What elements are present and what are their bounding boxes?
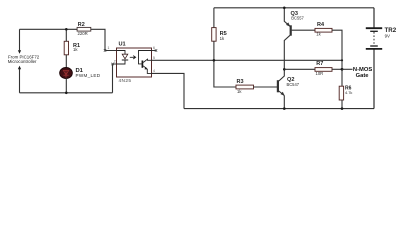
wire R7 right lead xyxy=(332,68,342,70)
svg-text:9V: 9V xyxy=(385,33,390,38)
wire R4 right to gate column xyxy=(332,30,342,60)
phototransistor inside U1 xyxy=(141,61,143,68)
wire R1 top lead xyxy=(65,29,67,41)
input arrow lower xyxy=(18,66,21,70)
resistor R1 xyxy=(64,41,68,55)
wire left bottom rail xyxy=(20,92,113,94)
svg-text:R4: R4 xyxy=(317,22,325,28)
resistor R4 xyxy=(315,28,332,32)
svg-text:BC557: BC557 xyxy=(291,15,304,20)
svg-text:Microcontroller: Microcontroller xyxy=(8,59,37,64)
node Q2 emitter at rail xyxy=(283,107,286,110)
svg-text:U1: U1 xyxy=(119,41,126,47)
wire R6 bottom lead xyxy=(341,100,343,109)
node gate junction xyxy=(341,68,344,71)
svg-text:R3: R3 xyxy=(237,79,244,85)
wire R1 to D1 xyxy=(65,55,67,69)
svg-text:4N25: 4N25 xyxy=(119,78,132,84)
resistor R5 xyxy=(212,28,216,42)
svg-text:10R: 10R xyxy=(316,71,324,76)
wire R3 to Q2 base xyxy=(254,86,278,88)
led inside U1 xyxy=(117,51,126,55)
wire R5 bottom lead through junction to R3 xyxy=(214,41,236,87)
transistor Q3 BC557 xyxy=(284,8,315,70)
svg-text:BC547: BC547 xyxy=(287,82,300,87)
wire gate column vertical xyxy=(341,60,343,86)
wire input left vertical lower xyxy=(19,69,21,93)
resistor R7 xyxy=(315,68,332,72)
pin marks xyxy=(104,49,106,51)
wire U1 pin5 to gate column xyxy=(152,59,343,61)
node junction top xyxy=(65,28,68,31)
wire U1 pin4 to ground rail xyxy=(152,73,185,108)
svg-text:4.7k: 4.7k xyxy=(345,90,352,95)
svg-text:PWM_LED: PWM_LED xyxy=(76,73,101,78)
photon arrows xyxy=(130,56,136,59)
diode D1 PWM_LED xyxy=(60,68,73,79)
svg-text:220R: 220R xyxy=(78,31,88,36)
wire D1 bottom lead xyxy=(65,78,67,93)
optocoupler U1 4N25 xyxy=(104,41,157,84)
resistor R6 xyxy=(339,86,343,100)
svg-text:1: 1 xyxy=(108,46,110,50)
wire input left vertical upper xyxy=(19,29,21,50)
svg-text:Gate: Gate xyxy=(356,73,370,79)
wire bottom ground rail xyxy=(184,108,374,110)
node gate junction upper xyxy=(341,59,343,61)
resistor R3 xyxy=(236,85,254,89)
node junction bottom xyxy=(65,92,68,95)
wire R7 left lead xyxy=(284,68,315,70)
input arrow xyxy=(18,50,21,54)
svg-text:4: 4 xyxy=(153,69,155,73)
svg-text:5: 5 xyxy=(153,56,155,60)
svg-text:6: 6 xyxy=(153,46,155,50)
svg-text:R2: R2 xyxy=(78,22,85,28)
transistor Q2 BC547 xyxy=(278,69,285,108)
wire U1 pin2 down to left rail xyxy=(113,64,117,93)
wire input top horizontal xyxy=(20,28,78,30)
node top rail junction xyxy=(283,7,286,10)
svg-text:R7: R7 xyxy=(316,61,323,67)
wire top supply rail xyxy=(214,7,374,9)
resistor R2 xyxy=(77,27,91,31)
svg-text:2: 2 xyxy=(114,60,116,64)
wire gate stub xyxy=(342,68,353,70)
wire R5 top lead xyxy=(213,8,215,28)
node junction R5 pin5 xyxy=(213,59,216,62)
wire R2 to U1 pin1 xyxy=(91,29,117,50)
battery TR2 xyxy=(366,8,382,109)
node R6 at rail xyxy=(341,107,344,110)
node collector junction xyxy=(283,68,286,71)
